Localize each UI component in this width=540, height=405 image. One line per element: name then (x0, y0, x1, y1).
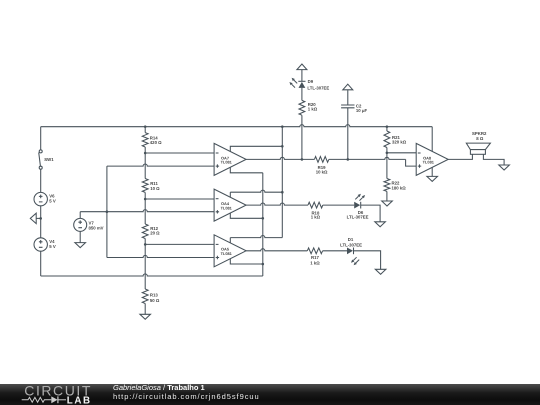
LED D1 LTL-307EE (340, 237, 362, 265)
logo wire with resistor and diode (22, 397, 52, 402)
node chain to OA5 - input (144, 243, 147, 246)
svg-text:LTL-307EE: LTL-307EE (347, 214, 369, 219)
wire chain junction to OA5 - input (145, 243, 214, 245)
node D9 branch on output line (301, 158, 304, 161)
svg-text:850 mV: 850 mV (89, 226, 104, 231)
svg-text:8 Ω: 8 Ω (476, 136, 484, 141)
node R14 top on bus (144, 125, 147, 128)
wire top positive supply bus (41, 125, 433, 127)
node R21 R22 OA8 - junction (386, 152, 389, 155)
wire D6 to ground (361, 205, 380, 222)
wire bottom negative rail (41, 274, 263, 276)
wire D9-R20 branch vertical (301, 70, 303, 160)
ground below V7 (75, 243, 86, 248)
node flag left arrow at V6/V4 junction (30, 213, 42, 223)
wire OA7 output to R19 (246, 157, 314, 159)
node chain to OA7 - input (144, 152, 147, 155)
resistor R21 320 kohm (384, 127, 407, 153)
wire C2 branch vertical (347, 90, 349, 159)
svg-text:420 Ω: 420 Ω (150, 140, 162, 145)
ground below OA8 (427, 176, 438, 181)
op-amp OA5 TL081 (214, 235, 246, 267)
wire V4 to bottom rail corner (40, 251, 42, 276)
wire OA8 V+ from bus (431, 127, 433, 152)
op-amp OA4 TL081 (214, 189, 246, 221)
svg-text:R13: R13 (150, 293, 158, 298)
svg-text:5 V: 5 V (49, 199, 56, 204)
svg-text:5 V: 5 V (49, 244, 56, 249)
footer bar (0, 384, 540, 405)
op-amp OA8 TL081 (416, 143, 448, 175)
node flag above D9 (297, 64, 307, 70)
resistor R20 1 kohm (299, 100, 318, 115)
node chain to OA4 - input (144, 198, 147, 201)
voltage source V7 (74, 218, 104, 231)
svg-text:D9: D9 (308, 79, 314, 84)
ground right of speaker (499, 165, 510, 170)
wire V7 bottom lead (79, 231, 81, 242)
resistor R12 20 ohm (142, 199, 160, 244)
resistor R13 50 ohm (142, 244, 160, 314)
wire R19 to OA8 + input jog (329, 157, 406, 159)
node V+ rail on bus (281, 125, 284, 128)
node OA4 V- on rail (262, 217, 265, 220)
svg-text:10 kΩ: 10 kΩ (316, 169, 328, 174)
wire OA7 V- pin to V- rail (230, 167, 262, 173)
CircuitLab logo (0, 384, 100, 405)
node OA7 V+ on rail (281, 145, 284, 148)
node C2 branch on output line (347, 158, 350, 161)
wire left small rail vertical (106, 166, 108, 257)
resistor R14 420 ohm (142, 127, 162, 153)
wire D1 to ground (354, 251, 381, 269)
svg-text:20 Ω: 20 Ω (150, 231, 160, 236)
wire chain junction to OA4 - input (145, 198, 214, 200)
node flag above C2 (343, 84, 353, 90)
svg-text:1 kΩ: 1 kΩ (311, 215, 321, 220)
wire left branch upper (bus to SW1) (40, 127, 42, 150)
resistor R18 1 kohm (308, 202, 323, 219)
svg-text:TL081: TL081 (221, 160, 233, 165)
svg-text:320 kΩ: 320 kΩ (392, 140, 407, 145)
LED D6 LTL-307EE (347, 194, 369, 220)
switch SW1 (39, 150, 55, 169)
ground below R13 (140, 314, 151, 319)
svg-text:TL081: TL081 (221, 205, 233, 210)
speaker SPKR2 8 ohm (466, 131, 490, 154)
wire left rail to OA7 + input (107, 164, 214, 166)
svg-text:10 μF: 10 μF (356, 108, 368, 113)
resistor R11 10 ohm (142, 153, 160, 199)
wire OA4 V+ pin to rail (229, 192, 231, 197)
wire OA4 output to R18 (246, 203, 308, 205)
ground below D6 (375, 222, 386, 227)
wire chain junction to OA7 - input (145, 152, 214, 154)
LED D9 LTL-307EE (289, 78, 329, 91)
wire V7 to OA4 + input (80, 210, 214, 212)
wire OA8 output to speaker (448, 154, 472, 159)
voltage source V4 (34, 238, 56, 251)
svg-text:50 Ω: 50 Ω (150, 298, 160, 303)
svg-text:SW1: SW1 (44, 157, 54, 162)
svg-text:1 kΩ: 1 kΩ (308, 107, 318, 112)
wire OA5 output to R17 (246, 249, 307, 251)
ground below D1 (375, 269, 386, 274)
svg-text:LTL-307EE: LTL-307EE (340, 242, 362, 247)
svg-text:180 kΩ: 180 kΩ (392, 185, 407, 190)
svg-text:LAB: LAB (67, 396, 92, 405)
ground below R22 (382, 201, 393, 206)
wire R17 to D1 (323, 250, 347, 252)
wire speaker right terminal to ground (483, 154, 504, 165)
svg-text:TL081: TL081 (423, 160, 435, 165)
capacitor C2 10 uF (341, 104, 367, 113)
wire OA5 V+ pin to rail (229, 238, 231, 243)
wire V6 to V4 (40, 206, 42, 238)
node R21 top on bus (386, 125, 389, 128)
wire OA8 V- pin to ground (431, 167, 433, 176)
node OA5 V- on rail (262, 263, 265, 266)
voltage source V6 (34, 192, 56, 205)
node V7 left rail junction (106, 210, 109, 213)
wire left rail to OA5 + input (107, 255, 214, 257)
wire V- rail vertical (262, 173, 264, 276)
resistor R17 1 kohm (307, 248, 322, 265)
wire OA4 V- pin to V- rail (230, 213, 262, 218)
wire R18 to D6 (323, 204, 354, 206)
resistor R22 180 kohm (384, 153, 406, 201)
footer title and url (113, 383, 260, 402)
svg-text:1 kΩ: 1 kΩ (310, 260, 320, 265)
wire SW1 to V6 (40, 169, 42, 192)
svg-text:TL081: TL081 (221, 251, 233, 256)
wire OA5 V- pin to V- rail (230, 259, 262, 264)
wire V+ rail vertical (281, 127, 283, 238)
node OA4 V+ on rail (281, 191, 284, 194)
wire V7 top lead (79, 212, 81, 219)
wire divider to OA8 - input (387, 152, 416, 154)
svg-text:LTL-307EE: LTL-307EE (307, 85, 329, 90)
svg-text:10 Ω: 10 Ω (150, 186, 160, 191)
resistor R19 10 kohm (314, 157, 328, 175)
wire OA7 V+ pin to rail (230, 146, 282, 151)
op-amp OA7 TL081 (214, 143, 246, 175)
